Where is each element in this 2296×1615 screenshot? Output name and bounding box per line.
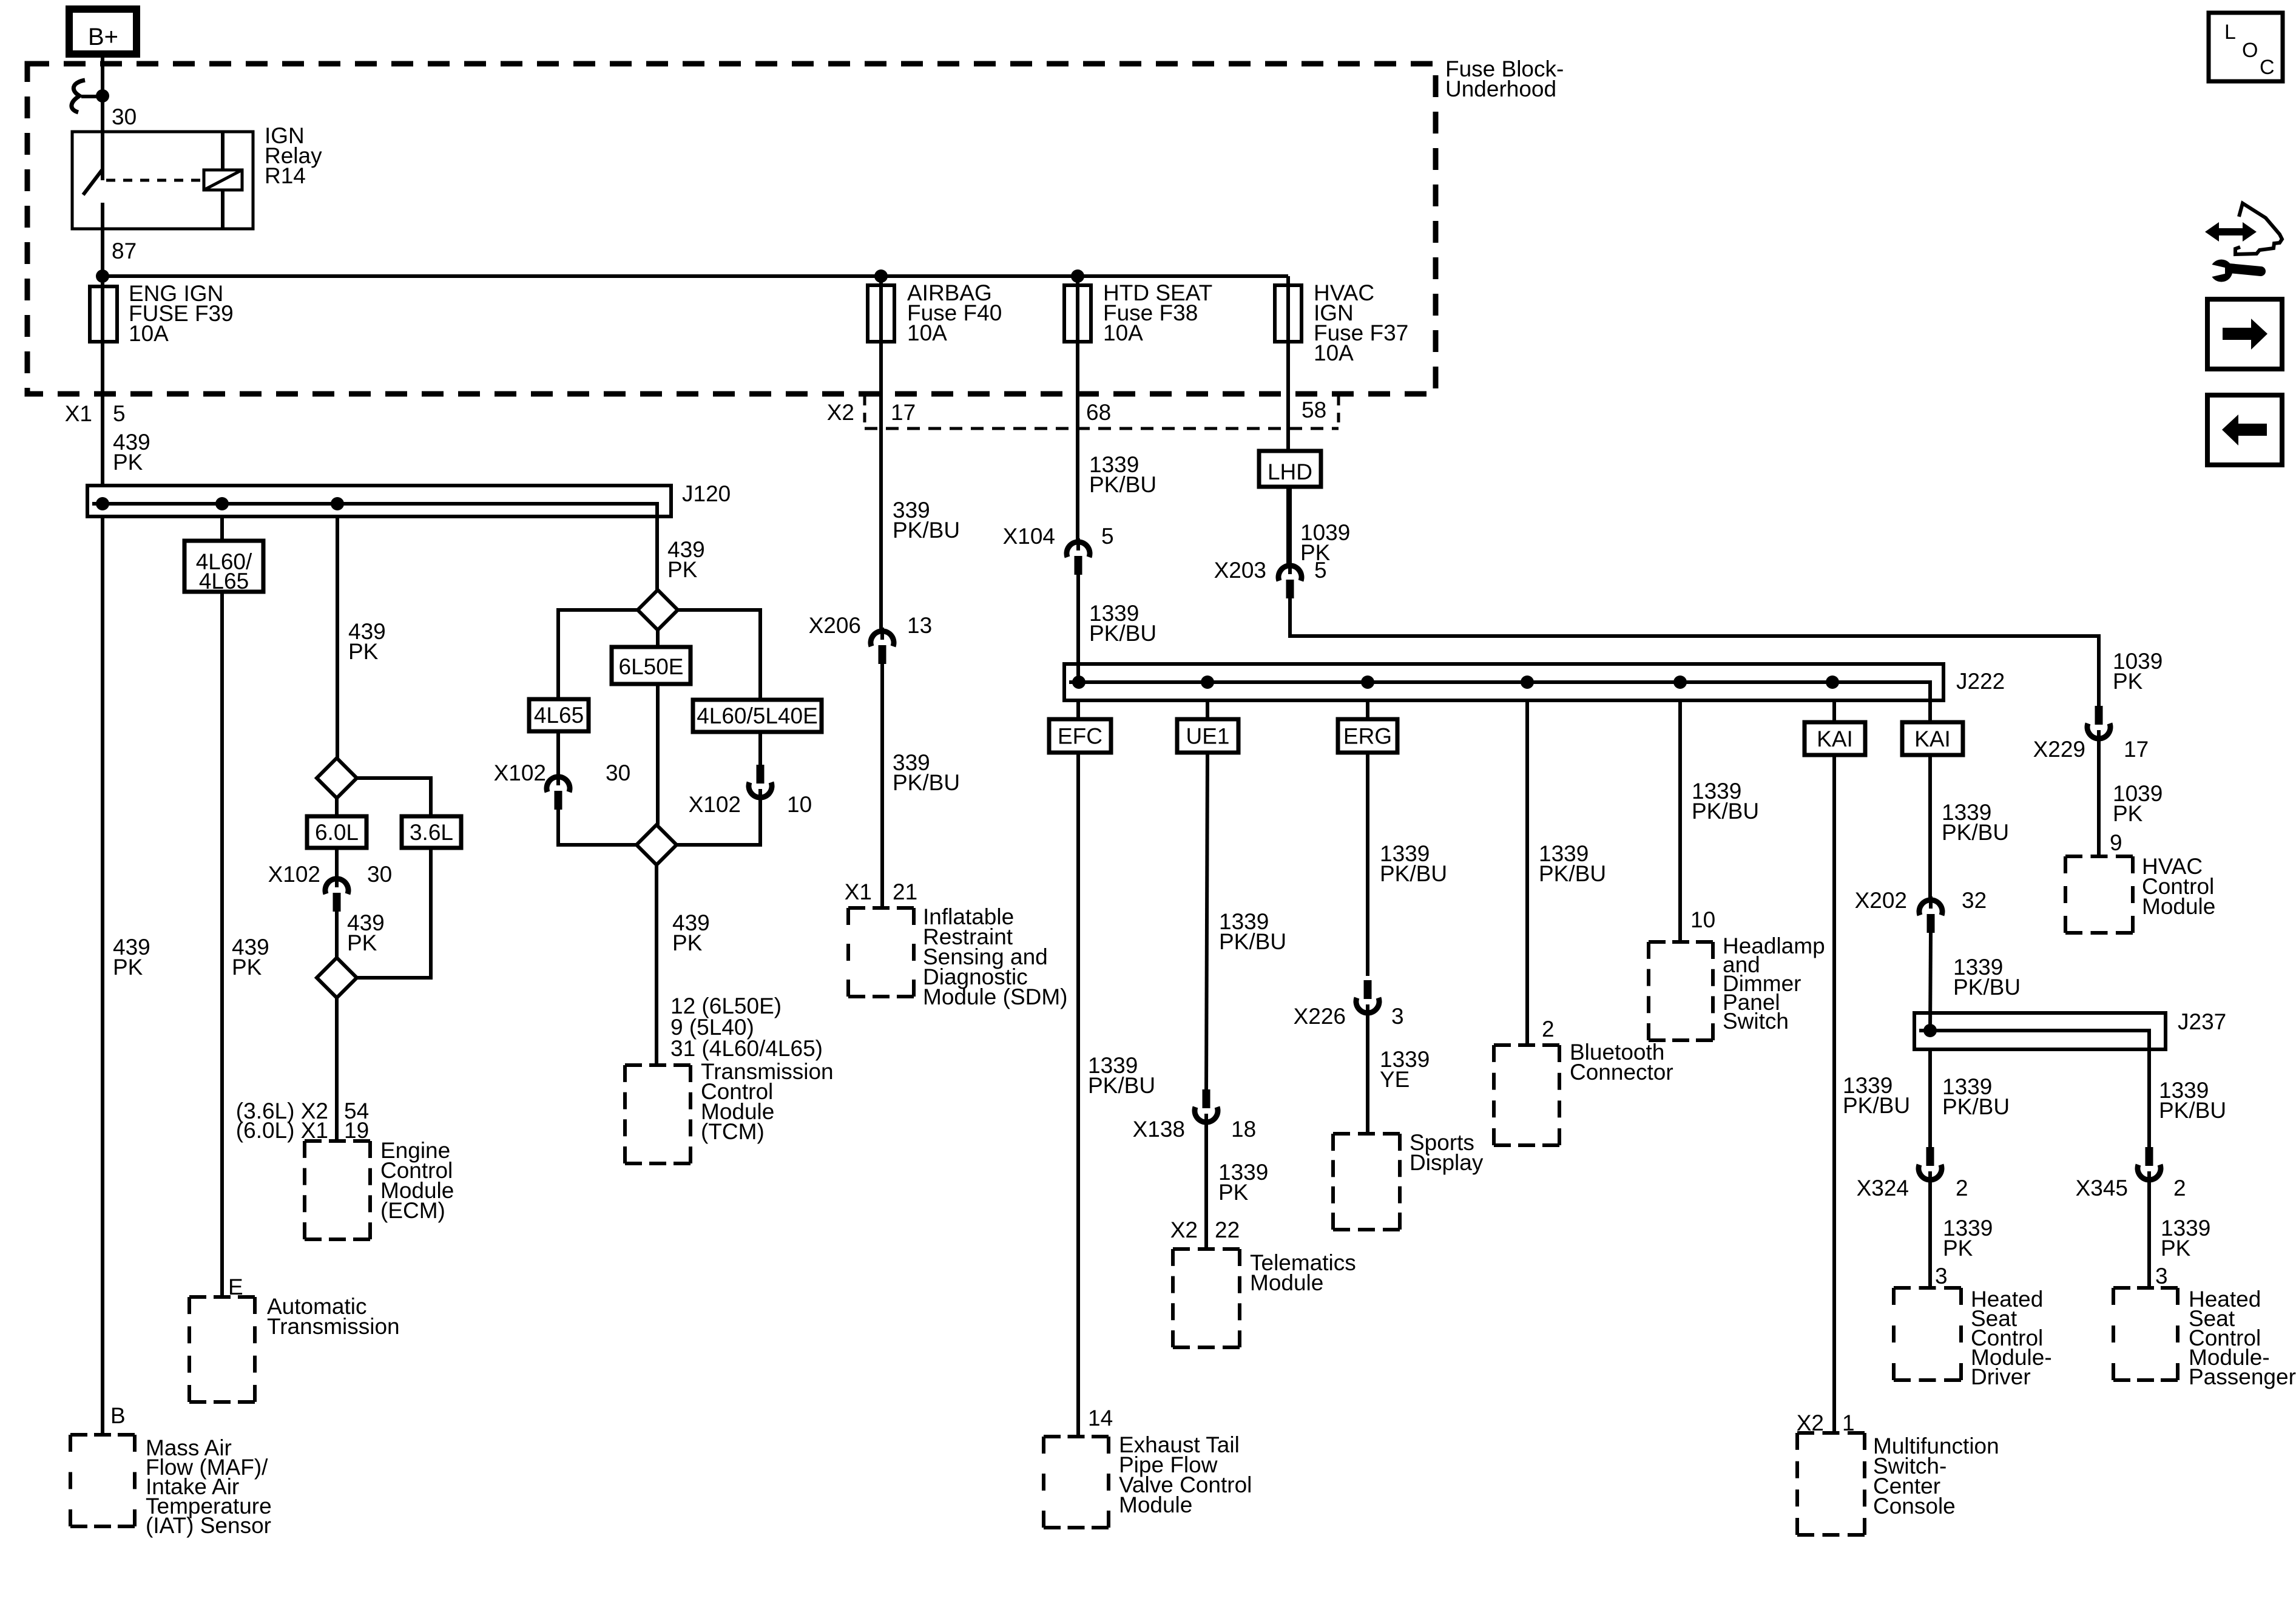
svg-text:X203: X203 bbox=[1214, 558, 1266, 583]
option box 4L60/4L65 bbox=[184, 541, 263, 592]
wire KAI to X202 bbox=[1928, 755, 1932, 899]
node on J222 (headlamp) bbox=[1673, 675, 1687, 689]
node at HTD SEAT fuse tap bbox=[1071, 269, 1084, 283]
svg-text:B: B bbox=[110, 1403, 126, 1428]
svg-text:PK: PK bbox=[232, 955, 262, 980]
svg-text:X229: X229 bbox=[2033, 737, 2085, 762]
connector X226 pin 3 bbox=[1364, 980, 1372, 999]
B+ terminal bbox=[69, 9, 137, 54]
svg-text:4L60/5L40E: 4L60/5L40E bbox=[697, 703, 818, 728]
svg-text:PK: PK bbox=[113, 450, 143, 475]
svg-text:(TCM): (TCM) bbox=[701, 1119, 765, 1144]
main feed wire from relay 87 across fuses bbox=[103, 274, 1288, 278]
svg-text:30: 30 bbox=[367, 862, 392, 887]
wire UE1 drop bbox=[1206, 700, 1209, 719]
svg-text:10A: 10A bbox=[1103, 320, 1143, 345]
Engine Control Module (ECM) bbox=[305, 1139, 370, 1143]
fuse AIRBAG Fuse F40 10A bbox=[868, 285, 894, 342]
svg-text:30: 30 bbox=[112, 104, 137, 129]
double arrow icon bbox=[2205, 222, 2257, 242]
Telematics Module bbox=[1173, 1247, 1240, 1251]
svg-text:58: 58 bbox=[1302, 398, 1326, 422]
wire X345 to heated seat passenger bbox=[2147, 1182, 2151, 1288]
svg-text:EFC: EFC bbox=[1058, 724, 1102, 749]
connector X138 pin 18 bbox=[1203, 1089, 1210, 1108]
wire B+ to relay pin 30 bbox=[101, 52, 104, 180]
fuse box EFC bbox=[1049, 719, 1111, 753]
svg-text:5: 5 bbox=[1101, 524, 1114, 549]
wire to 4L65 bbox=[558, 610, 638, 699]
svg-text:13: 13 bbox=[907, 613, 932, 638]
wire AIRBAG fuse column bbox=[879, 276, 883, 630]
svg-text:X138: X138 bbox=[1133, 1117, 1185, 1142]
fuse box KAI (center console) bbox=[1805, 722, 1865, 755]
wire X102 to merge diamond bbox=[558, 810, 636, 845]
svg-text:10A: 10A bbox=[129, 321, 169, 346]
svg-text:PK/BU: PK/BU bbox=[1539, 861, 1606, 886]
svg-text:2: 2 bbox=[2173, 1176, 2186, 1200]
relay coil stubs bbox=[221, 132, 225, 170]
svg-text:PK/BU: PK/BU bbox=[1692, 799, 1759, 824]
svg-text:R14: R14 bbox=[265, 163, 306, 188]
wire left column down to MAF sensor bbox=[101, 516, 104, 1435]
option box 3.6L bbox=[402, 816, 461, 848]
svg-text:10: 10 bbox=[787, 792, 812, 817]
wire X206 to SDM bbox=[880, 664, 884, 907]
svg-text:YE: YE bbox=[1380, 1067, 1410, 1092]
splice pack J237 bbox=[1914, 1013, 2166, 1049]
svg-text:PK/BU: PK/BU bbox=[2159, 1098, 2226, 1123]
svg-text:3: 3 bbox=[1935, 1264, 1948, 1288]
Heated Seat Control Module-Passenger bbox=[2113, 1286, 2178, 1290]
svg-text:X104: X104 bbox=[1003, 524, 1055, 549]
svg-text:PK/BU: PK/BU bbox=[1380, 861, 1447, 886]
svg-text:ERG: ERG bbox=[1343, 724, 1392, 749]
svg-text:X206: X206 bbox=[809, 613, 861, 638]
node on J222 (ERG) bbox=[1361, 675, 1374, 689]
relay R14 box bbox=[72, 132, 253, 229]
wire to TCM bbox=[655, 865, 658, 1065]
svg-text:Module: Module bbox=[1250, 1270, 1323, 1295]
wire LHD to X203 bbox=[1288, 487, 1292, 565]
HVAC Control Module bbox=[2065, 855, 2133, 858]
Sports Display bbox=[1333, 1132, 1400, 1136]
wire 4L60/5L40E to X102 bbox=[758, 732, 762, 765]
svg-text:X226: X226 bbox=[1294, 1004, 1346, 1029]
wire KAI to multifunction switch bbox=[1832, 755, 1836, 1433]
svg-text:4L65: 4L65 bbox=[199, 569, 249, 594]
svg-text:X1: X1 bbox=[845, 879, 872, 904]
wire relay to node 87 bbox=[101, 203, 104, 486]
Headlamp and Dimmer Panel Switch bbox=[1649, 940, 1713, 944]
svg-text:3: 3 bbox=[1391, 1004, 1404, 1029]
wire to ECM bbox=[335, 998, 339, 1141]
wire 3.6L to merge diamond bbox=[357, 848, 431, 978]
svg-text:2: 2 bbox=[1956, 1176, 1968, 1200]
fuse HTD SEAT Fuse F38 10A bbox=[1064, 285, 1091, 342]
connector X229 pin 17 bbox=[2095, 706, 2103, 725]
svg-text:22: 22 bbox=[1215, 1217, 1240, 1242]
svg-text:X102: X102 bbox=[494, 760, 546, 785]
connector X203 pin 5 bbox=[1288, 562, 1292, 574]
vehicle icon bbox=[2235, 203, 2282, 254]
Exhaust Tail Pipe Flow Valve Control Module bbox=[1044, 1435, 1109, 1438]
wire HTD SEAT fuse column bbox=[1076, 276, 1079, 541]
junction diamond (transmission merge) bbox=[636, 825, 677, 865]
svg-text:PK/BU: PK/BU bbox=[1089, 472, 1156, 497]
relay coil bbox=[204, 170, 242, 190]
svg-text:Switch: Switch bbox=[1723, 1009, 1789, 1034]
svg-text:X345: X345 bbox=[2076, 1176, 2128, 1200]
svg-text:X1: X1 bbox=[65, 401, 92, 426]
Transmission Control Module (TCM) bbox=[625, 1063, 690, 1067]
wire EFC drop bbox=[1076, 700, 1080, 719]
node at AIRBAG fuse tap bbox=[874, 269, 888, 283]
svg-text:PK: PK bbox=[2113, 801, 2143, 826]
option box LHD bbox=[1259, 451, 1321, 487]
svg-text:Transmission: Transmission bbox=[267, 1314, 400, 1339]
svg-text:PK/BU: PK/BU bbox=[1942, 1094, 2010, 1119]
connector X206 pin 13 bbox=[880, 628, 884, 640]
fuse box KAI (heated seats) bbox=[1902, 722, 1963, 755]
fuse block internal connection hook bbox=[72, 80, 85, 112]
svg-text:J120: J120 bbox=[682, 481, 731, 506]
wire ERG to X226 bbox=[1366, 753, 1369, 976]
junction diamond (engine merge) bbox=[317, 958, 357, 998]
svg-text:PK: PK bbox=[672, 930, 703, 955]
wire bluetooth drop bbox=[1525, 700, 1529, 1045]
svg-text:5: 5 bbox=[113, 401, 126, 426]
LOC legend box bbox=[2209, 13, 2283, 81]
wire 4L60/4L65 column bbox=[220, 516, 224, 1297]
relay switch arm bbox=[83, 169, 103, 195]
svg-text:2: 2 bbox=[1542, 1017, 1555, 1041]
svg-text:14: 14 bbox=[1088, 1406, 1113, 1430]
svg-text:3: 3 bbox=[2155, 1264, 2168, 1288]
svg-text:Module (SDM): Module (SDM) bbox=[923, 984, 1068, 1009]
svg-text:PK/BU: PK/BU bbox=[893, 518, 960, 543]
junction diamond (6.0L/3.6L split) bbox=[317, 758, 357, 798]
svg-text:(ECM): (ECM) bbox=[380, 1198, 445, 1223]
junction diamond (transmission split) bbox=[638, 590, 678, 630]
wire X138 to telematics bbox=[1204, 1125, 1208, 1249]
svg-text:X202: X202 bbox=[1855, 888, 1907, 913]
wire X102 to merge diamond bbox=[335, 912, 339, 958]
wire X203 across to X229 bbox=[1290, 598, 2099, 706]
svg-text:L: L bbox=[2224, 21, 2236, 44]
svg-text:30: 30 bbox=[606, 760, 630, 785]
svg-text:6.0L: 6.0L bbox=[315, 820, 359, 845]
svg-text:9: 9 bbox=[2110, 830, 2122, 855]
svg-text:6L50E: 6L50E bbox=[619, 654, 684, 679]
svg-text:Passenger: Passenger bbox=[2189, 1364, 2296, 1389]
svg-text:32: 32 bbox=[1962, 888, 1987, 913]
forward arrow box bbox=[2207, 299, 2282, 369]
svg-text:PK/BU: PK/BU bbox=[1942, 820, 2009, 845]
svg-text:(6.0L) X1: (6.0L) X1 bbox=[236, 1118, 328, 1143]
splice pack J222 bbox=[1064, 664, 1943, 700]
svg-text:10: 10 bbox=[1690, 907, 1715, 932]
svg-text:PK: PK bbox=[2113, 669, 2143, 694]
svg-text:Driver: Driver bbox=[1971, 1364, 2031, 1389]
connector X202 pin 32 bbox=[1929, 896, 1933, 909]
connector X102 pin 30 (6.0L) bbox=[335, 875, 339, 887]
wire UE1 to X138 bbox=[1206, 753, 1207, 1091]
svg-text:5: 5 bbox=[1314, 558, 1327, 583]
Multifunction Switch-Center Console bbox=[1797, 1431, 1865, 1435]
svg-text:Underhood: Underhood bbox=[1445, 76, 1556, 101]
svg-text:UE1: UE1 bbox=[1186, 724, 1230, 749]
3.6L branch wire bbox=[357, 778, 431, 816]
Automatic Transmission bbox=[189, 1295, 255, 1299]
wire EFC to exhaust module bbox=[1076, 753, 1080, 1435]
node on J237 bbox=[1923, 1024, 1937, 1037]
svg-text:PK/BU: PK/BU bbox=[1088, 1073, 1155, 1098]
svg-text:17: 17 bbox=[2124, 737, 2149, 762]
svg-text:68: 68 bbox=[1086, 400, 1111, 425]
svg-text:PK: PK bbox=[1218, 1180, 1249, 1205]
Bluetooth Connector bbox=[1494, 1043, 1559, 1047]
svg-text:B+: B+ bbox=[88, 24, 118, 50]
connector X102 pin 10 bbox=[757, 765, 765, 784]
back arrow box bbox=[2207, 395, 2282, 465]
wire KAI 1 drop bbox=[1832, 700, 1836, 722]
svg-text:PK/BU: PK/BU bbox=[1219, 929, 1286, 954]
Heated Seat Control Module-Driver bbox=[1894, 1286, 1961, 1290]
svg-text:PK: PK bbox=[2161, 1236, 2191, 1261]
svg-text:X102: X102 bbox=[268, 862, 320, 887]
wire ECM branch column bbox=[336, 516, 339, 758]
node on J120 (left feed) bbox=[96, 497, 109, 510]
wire ERG drop bbox=[1366, 700, 1369, 719]
wire J237 to X345 bbox=[2147, 1049, 2151, 1148]
node on J222 (bluetooth) bbox=[1521, 675, 1534, 689]
wire J237 to X324 bbox=[1928, 1049, 1932, 1148]
node on J120 (ECM branch) bbox=[331, 497, 344, 510]
svg-text:KAI: KAI bbox=[1914, 726, 1951, 751]
connector X104 pin 5 bbox=[1076, 538, 1080, 550]
wire X226 to sports display bbox=[1366, 1015, 1369, 1134]
wire X324 to heated seat driver bbox=[1928, 1182, 1932, 1288]
svg-text:PK/BU: PK/BU bbox=[1953, 975, 2021, 1000]
Inflatable Restraint Sensing and Diagnostic Module (SDM) bbox=[848, 906, 914, 910]
Mass Air Flow (MAF)/Intake Air Temperature (IAT) Sensor bbox=[70, 1433, 135, 1437]
svg-text:10A: 10A bbox=[907, 320, 947, 345]
svg-text:X324: X324 bbox=[1857, 1176, 1909, 1200]
svg-text:Module: Module bbox=[2142, 894, 2215, 919]
svg-text:LHD: LHD bbox=[1268, 459, 1312, 484]
svg-text:O: O bbox=[2242, 39, 2258, 62]
svg-text:4L65: 4L65 bbox=[534, 703, 584, 728]
wire headlamp drop bbox=[1678, 700, 1682, 942]
wire HVAC fuse column bbox=[1286, 276, 1290, 564]
svg-text:(IAT) Sensor: (IAT) Sensor bbox=[146, 1513, 271, 1538]
svg-text:Connector: Connector bbox=[1570, 1060, 1673, 1085]
node on J120 (4L60 branch) bbox=[215, 497, 229, 510]
pin 58 to LHD bbox=[1286, 346, 1290, 451]
fuse block - underhood dashed border bbox=[27, 64, 1436, 394]
wire KAI 2 drop bbox=[1928, 700, 1932, 722]
svg-text:17: 17 bbox=[891, 400, 916, 425]
node on J222 (EFC) bbox=[1072, 675, 1086, 689]
svg-text:21: 21 bbox=[893, 879, 917, 904]
node on J222 (UE1) bbox=[1201, 675, 1214, 689]
svg-text:PK/BU: PK/BU bbox=[1089, 621, 1156, 646]
svg-text:J222: J222 bbox=[1956, 669, 2005, 694]
splice pack J120 bbox=[87, 486, 671, 516]
svg-text:X2: X2 bbox=[1170, 1217, 1198, 1242]
svg-text:10A: 10A bbox=[1314, 340, 1354, 365]
wire 4L65 to X102 bbox=[556, 731, 560, 776]
wire to 4L60/5L40E bbox=[678, 610, 760, 700]
svg-text:3.6L: 3.6L bbox=[410, 820, 453, 845]
svg-text:18: 18 bbox=[1231, 1117, 1256, 1142]
svg-text:X2: X2 bbox=[827, 400, 854, 425]
svg-text:KAI: KAI bbox=[1817, 726, 1853, 751]
node: splice at B+ feed bbox=[96, 89, 109, 103]
svg-text:31 (4L60/4L65): 31 (4L60/4L65) bbox=[670, 1036, 823, 1061]
wire X229 to HVAC control module bbox=[2097, 741, 2101, 856]
fuse box ERG bbox=[1338, 719, 1397, 753]
option box 4L60/5L40E bbox=[693, 700, 822, 732]
svg-text:PK: PK bbox=[667, 557, 698, 582]
svg-text:PK/BU: PK/BU bbox=[893, 770, 960, 795]
svg-text:87: 87 bbox=[112, 239, 137, 263]
wire to 6.0L bbox=[335, 798, 339, 816]
connector X2 strip of fuse block bbox=[865, 427, 1339, 430]
option box 6L50E bbox=[612, 647, 690, 684]
wire X104 to J222 bbox=[1076, 575, 1080, 682]
svg-text:PK: PK bbox=[348, 639, 379, 664]
svg-text:PK: PK bbox=[1943, 1236, 1973, 1261]
wire 6L50E to merge diamond bbox=[656, 684, 660, 825]
wire X202 to J237 bbox=[1930, 933, 1931, 1031]
wire TCM branch column bbox=[655, 516, 659, 590]
wire 6.0L to X102 bbox=[335, 848, 339, 878]
svg-text:Module: Module bbox=[1119, 1492, 1192, 1517]
svg-text:C: C bbox=[2260, 56, 2275, 79]
wire to 6L50E bbox=[656, 630, 660, 651]
svg-text:Console: Console bbox=[1873, 1494, 1956, 1519]
svg-text:PK/BU: PK/BU bbox=[1843, 1093, 1910, 1118]
fuse ENG IGN FUSE F39 10A bbox=[90, 286, 117, 342]
option box 6.0L bbox=[307, 816, 366, 848]
option box 4L65 bbox=[529, 699, 589, 731]
fuse box UE1 bbox=[1177, 719, 1238, 753]
node 87 junction bbox=[96, 269, 109, 283]
relay actuation dashed link bbox=[106, 179, 204, 182]
svg-text:Display: Display bbox=[1410, 1150, 1484, 1175]
svg-text:J237: J237 bbox=[2178, 1009, 2226, 1034]
node on J222 (KAI) bbox=[1826, 675, 1839, 689]
svg-text:X102: X102 bbox=[689, 792, 741, 817]
svg-text:19: 19 bbox=[344, 1118, 369, 1143]
wrench icon bbox=[2210, 260, 2233, 282]
connector X102 pin 30 (4L65) bbox=[556, 773, 560, 785]
svg-text:PK: PK bbox=[113, 955, 143, 980]
connector X324 pin 2 bbox=[1926, 1147, 1934, 1166]
wire X102 to merge diamond bbox=[677, 800, 760, 845]
fuse HVAC IGN Fuse F37 10A bbox=[1275, 285, 1302, 342]
connector X345 pin 2 bbox=[2146, 1147, 2153, 1166]
svg-text:PK: PK bbox=[347, 930, 377, 955]
